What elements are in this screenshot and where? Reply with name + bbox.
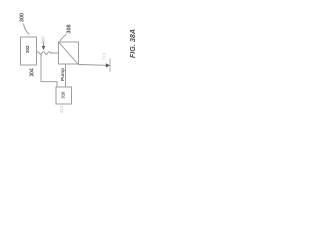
wire: box 308 down to pump	[65, 64, 67, 87]
svg-text:308: 308	[67, 24, 73, 33]
svg-text:304: 304	[30, 68, 36, 77]
svg-text:300: 300	[20, 13, 26, 22]
svg-text:FIG. 38A: FIG. 38A	[128, 29, 137, 58]
svg-text:306: 306	[41, 36, 46, 44]
diagonal level line in box 308	[59, 43, 78, 64]
arrowhead 306 pointing down at coil	[42, 46, 45, 50]
box 310 (pump, bottom)	[56, 87, 72, 104]
svg-text:316: 316	[102, 52, 107, 60]
wire: branch down from coil, right, down to pump	[41, 54, 57, 88]
box 302 (left tank)	[21, 37, 37, 65]
svg-text:Pump: Pump	[60, 68, 65, 81]
leader line for label 308	[60, 34, 67, 41]
wire: right box to arrow	[79, 64, 107, 67]
svg-text:302: 302	[25, 45, 30, 53]
svg-text:312: 312	[59, 105, 64, 113]
wire: coil tubing between box 302 and box 308	[37, 52, 59, 55]
leader line of arrow 306	[43, 41, 45, 46]
svg-text:310: 310	[60, 91, 65, 99]
wall segment at arrow	[109, 59, 111, 73]
box 308 (right container)	[59, 42, 79, 64]
leader line for label 300	[24, 24, 30, 35]
